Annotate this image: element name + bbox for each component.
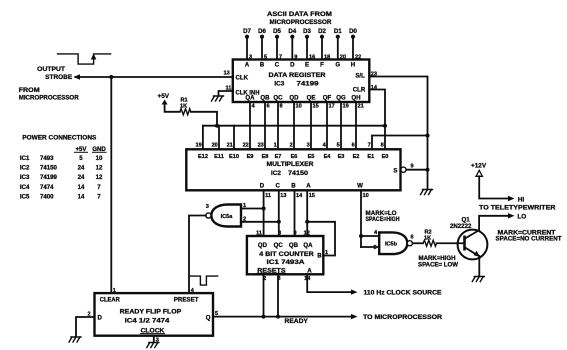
svg-text:12: 12 xyxy=(96,174,103,181)
svg-text:6: 6 xyxy=(352,143,355,149)
svg-text:12: 12 xyxy=(96,165,103,172)
svg-text:7474: 7474 xyxy=(40,184,54,191)
svg-text:15: 15 xyxy=(309,193,315,199)
svg-text:QF: QF xyxy=(323,95,332,102)
pin 23 label S/L xyxy=(371,72,377,78)
wire QG to E3 xyxy=(341,102,349,149)
svg-text:A: A xyxy=(306,183,311,190)
wire QH to E2 xyxy=(356,102,364,149)
svg-text:11: 11 xyxy=(265,193,271,199)
svg-text:7: 7 xyxy=(368,143,371,149)
svg-text:D: D xyxy=(260,183,265,190)
svg-text:IC1: IC1 xyxy=(20,155,30,162)
node TO TELETYPEWRITER label xyxy=(479,205,556,212)
svg-text:E5: E5 xyxy=(308,154,315,160)
wire IC5b input 4 xyxy=(361,230,379,236)
wire counter reset pin 2 to READY xyxy=(263,274,266,316)
svg-text:9: 9 xyxy=(411,164,414,170)
svg-text:QG: QG xyxy=(336,95,346,102)
junction R1/rail xyxy=(215,124,219,128)
svg-text:6: 6 xyxy=(411,235,414,241)
ground at D input xyxy=(69,337,81,342)
wire R2 to base xyxy=(437,242,465,244)
svg-text:E2: E2 xyxy=(353,154,360,160)
junction strobe / clear xyxy=(109,75,113,79)
node D5 xyxy=(273,28,282,61)
svg-text:TO MICROPROCESSOR: TO MICROPROCESSOR xyxy=(363,314,443,321)
wire counter reset pin 3 to READY xyxy=(277,274,280,316)
svg-text:19: 19 xyxy=(195,143,201,149)
svg-text:E10: E10 xyxy=(229,154,239,160)
svg-text:IC4 1/2 7474: IC4 1/2 7474 xyxy=(125,318,171,325)
node D4 xyxy=(288,28,297,61)
svg-text:19: 19 xyxy=(343,104,349,110)
svg-text:IC5b: IC5b xyxy=(385,242,398,248)
svg-text:20: 20 xyxy=(212,143,218,149)
wire rail to E10 xyxy=(233,126,235,150)
wire IC5a input 2 xyxy=(241,217,279,223)
svg-text:DATA REGISTER: DATA REGISTER xyxy=(269,72,326,79)
arrow to 110Hz clock source xyxy=(351,289,442,296)
arrow to microprocessor xyxy=(351,314,443,321)
svg-text:IC5: IC5 xyxy=(20,194,30,201)
wire QF to E4 xyxy=(327,102,335,149)
4 bit counter IC1 7493A xyxy=(247,236,323,274)
svg-text:MULTIPLEXER: MULTIPLEXER xyxy=(267,161,314,168)
wire R1 to pull-up rail xyxy=(191,112,217,126)
wire mux C to counter QC xyxy=(278,190,287,236)
svg-text:14: 14 xyxy=(78,194,85,201)
svg-text:CLR: CLR xyxy=(353,87,366,94)
svg-text:23: 23 xyxy=(258,143,264,149)
wire: +5V pull-up rail xyxy=(203,125,385,127)
svg-text:1: 1 xyxy=(113,288,116,294)
svg-text:2: 2 xyxy=(263,276,266,282)
transistor Q1 2N2222 xyxy=(450,216,487,259)
wire IC5b input 5 xyxy=(361,245,379,251)
svg-text:HI: HI xyxy=(518,196,525,203)
svg-text:22: 22 xyxy=(243,143,249,149)
svg-text:QA: QA xyxy=(245,95,255,102)
multiplexer IC2 74150 xyxy=(186,149,400,190)
svg-text:74199: 74199 xyxy=(40,174,58,181)
node MARK=LO SPACE=HIGH label xyxy=(366,210,400,223)
svg-text:CLK: CLK xyxy=(236,75,249,82)
svg-text:E7: E7 xyxy=(275,154,282,160)
svg-text:E: E xyxy=(305,62,309,69)
svg-text:2N2222: 2N2222 xyxy=(450,223,472,230)
resistor R1 1K xyxy=(180,98,191,115)
node FROM MICROPROCESSOR label xyxy=(19,87,79,102)
svg-text:S: S xyxy=(393,167,397,174)
svg-text:QD: QD xyxy=(258,242,268,249)
junction QC line / input2 xyxy=(277,220,281,224)
pin 4 label PRESET xyxy=(191,288,195,294)
wire: output strobe line to CLK xyxy=(74,74,233,79)
data register IC3 74199 xyxy=(233,60,369,103)
svg-text:E8: E8 xyxy=(262,154,269,160)
wire QB to E8 xyxy=(265,102,270,149)
junction READY / reset2 xyxy=(262,315,266,319)
wire QA to B input pin 1 xyxy=(307,222,335,256)
svg-text:C: C xyxy=(275,62,280,69)
svg-text:7493: 7493 xyxy=(40,155,54,162)
svg-text:D7: D7 xyxy=(243,28,251,35)
svg-text:110 Hz CLOCK SOURCE: 110 Hz CLOCK SOURCE xyxy=(364,290,442,297)
svg-text:74199: 74199 xyxy=(297,81,320,88)
svg-text:D1: D1 xyxy=(334,28,342,35)
svg-text:B: B xyxy=(260,62,265,69)
svg-text:STROBE: STROBE xyxy=(45,74,73,81)
svg-text:QD: QD xyxy=(289,95,299,102)
nand gate IC5b xyxy=(379,232,413,254)
svg-text:10: 10 xyxy=(96,155,103,162)
resistor R2 1K xyxy=(423,230,437,247)
svg-text:D: D xyxy=(98,315,103,322)
svg-text:OUTPUT: OUTPUT xyxy=(37,66,65,73)
svg-text:3: 3 xyxy=(307,143,310,149)
svg-text:14: 14 xyxy=(304,276,311,282)
svg-text:IC3: IC3 xyxy=(20,174,30,181)
node READY label xyxy=(285,318,308,325)
wire S/L down to ground xyxy=(369,77,427,190)
wire CLR to E0 xyxy=(369,90,385,150)
svg-text:QB: QB xyxy=(260,95,270,102)
svg-text:IC1 7493A: IC1 7493A xyxy=(267,259,306,266)
svg-text:IC3: IC3 xyxy=(274,81,284,88)
svg-text:1: 1 xyxy=(274,143,277,149)
svg-text:3: 3 xyxy=(277,276,280,282)
wire QE to E5 xyxy=(311,102,319,149)
svg-text:S/L: S/L xyxy=(355,73,365,80)
svg-text:IC4: IC4 xyxy=(20,184,30,191)
node D6 xyxy=(258,28,267,61)
wire rail to E12 xyxy=(202,126,204,150)
svg-text:17: 17 xyxy=(329,104,335,110)
svg-text:24: 24 xyxy=(78,174,85,181)
svg-text:D3: D3 xyxy=(303,28,311,35)
svg-text:FROM: FROM xyxy=(19,87,40,94)
svg-text:Q: Q xyxy=(206,315,211,322)
pin 13 label CLK xyxy=(224,71,230,77)
node MARK=CURRENT label xyxy=(498,230,556,237)
svg-text:D2: D2 xyxy=(318,28,326,35)
node D2 xyxy=(318,28,330,61)
junction rail/CLR-E0 xyxy=(383,124,387,128)
svg-text:TO TELETYPEWRITER: TO TELETYPEWRITER xyxy=(479,205,556,212)
svg-text:QA: QA xyxy=(303,242,313,249)
svg-text:W: W xyxy=(357,183,363,190)
ground at S/L net xyxy=(421,190,433,195)
wire D pin 2 to ground xyxy=(76,312,95,337)
wire mux W to IC5b xyxy=(361,190,369,247)
svg-text:READY FLIP FLOP: READY FLIP FLOP xyxy=(120,309,182,316)
svg-text:14: 14 xyxy=(296,193,303,199)
svg-text:13: 13 xyxy=(280,193,286,199)
svg-text:H: H xyxy=(351,62,355,69)
wire mux A to counter QA xyxy=(304,190,315,236)
wire clock pin 3 to ground xyxy=(154,336,159,344)
svg-text:READY: READY xyxy=(285,318,308,325)
wire: CLK INH to ground xyxy=(219,91,233,96)
wire rail to E11 xyxy=(218,126,220,150)
svg-text:IC5a: IC5a xyxy=(221,214,234,220)
strobe waveform xyxy=(58,54,111,65)
svg-text:D0: D0 xyxy=(349,28,357,35)
node OUTPUT STROBE label xyxy=(37,66,73,81)
svg-text:SPACE= LOW: SPACE= LOW xyxy=(418,262,458,269)
wire IC5a output to PRESET xyxy=(189,216,206,294)
svg-text:D4: D4 xyxy=(288,28,296,35)
svg-text:10: 10 xyxy=(296,104,302,110)
svg-text:74150: 74150 xyxy=(40,165,58,172)
svg-text:MICROPROCESSOR: MICROPROCESSOR xyxy=(19,95,79,102)
wire counter A input pin 14 to clock source xyxy=(304,274,352,292)
wire emitter to ground xyxy=(478,256,480,276)
svg-text:E11: E11 xyxy=(214,154,224,160)
svg-text:8: 8 xyxy=(280,104,283,110)
ready flip flop IC4 1/2 7474 xyxy=(95,293,214,336)
svg-text:QC: QC xyxy=(274,242,284,249)
ground at emitter xyxy=(472,277,484,282)
mux top pin numbers xyxy=(195,143,383,149)
svg-text:6: 6 xyxy=(267,104,270,110)
wire QA to E9 xyxy=(250,102,256,149)
nand gate IC5a xyxy=(206,204,241,227)
svg-text:POWER CONNECTIONS: POWER CONNECTIONS xyxy=(22,135,97,142)
svg-text:A: A xyxy=(245,62,250,69)
junction QD line / input1 xyxy=(262,207,266,211)
svg-text:E6: E6 xyxy=(291,154,298,160)
node D3 xyxy=(303,28,315,61)
node D7 xyxy=(243,28,252,61)
svg-text:21: 21 xyxy=(227,143,233,149)
svg-text:LO: LO xyxy=(517,214,526,221)
ground at clock xyxy=(147,343,159,348)
pin 11 label CLK INH xyxy=(226,86,232,92)
svg-text:IC2: IC2 xyxy=(20,165,30,172)
node LO label xyxy=(517,214,526,221)
svg-text:QC: QC xyxy=(273,95,283,102)
svg-text:74150: 74150 xyxy=(288,170,308,177)
junction QA line / B loop xyxy=(305,220,309,224)
wire IC5a input 1 xyxy=(241,203,264,209)
svg-text:1: 1 xyxy=(243,203,246,209)
svg-text:24: 24 xyxy=(78,165,85,172)
svg-text:D: D xyxy=(290,62,295,69)
svg-text:5: 5 xyxy=(337,143,340,149)
svg-text:2: 2 xyxy=(290,143,293,149)
svg-text:C: C xyxy=(275,183,280,190)
strobe S bubble pin 9 xyxy=(401,164,428,173)
svg-text:E3: E3 xyxy=(338,154,345,160)
svg-text:14: 14 xyxy=(78,184,85,191)
svg-text:5: 5 xyxy=(215,311,218,317)
svg-text:2: 2 xyxy=(243,217,246,223)
node: ASCII DATA FROM MICROPROCESSOR label xyxy=(267,11,332,26)
svg-text:7400: 7400 xyxy=(40,194,54,201)
pin 1 label CLEAR xyxy=(113,288,116,294)
svg-text:3: 3 xyxy=(206,204,209,210)
wire E1 link xyxy=(372,136,428,150)
svg-text:QH: QH xyxy=(351,95,360,102)
+5V supply xyxy=(158,93,180,112)
svg-text:MICROPROCESSOR: MICROPROCESSOR xyxy=(270,19,332,26)
wire strobe junction down to CLEAR pin 1 xyxy=(110,77,112,293)
svg-text:QE: QE xyxy=(307,95,316,102)
svg-text:+5V: +5V xyxy=(158,93,170,100)
wire Q pin 5 READY line xyxy=(213,311,353,317)
svg-text:D6: D6 xyxy=(258,28,266,35)
svg-text:1: 1 xyxy=(325,250,328,256)
wire IC5b output to R2 xyxy=(413,242,424,244)
+12V supply xyxy=(471,162,487,176)
preset pulse waveform xyxy=(189,276,218,285)
power connections table xyxy=(20,135,106,201)
svg-text:G: G xyxy=(335,62,340,69)
svg-text:5: 5 xyxy=(374,245,377,251)
svg-text:E9: E9 xyxy=(247,154,254,160)
wire collector to LO xyxy=(479,213,514,230)
svg-text:+12V: +12V xyxy=(471,162,487,169)
wire +12V to HI xyxy=(479,176,514,201)
svg-text:E12: E12 xyxy=(198,154,208,160)
pin 14 label CLR xyxy=(371,85,378,91)
svg-text:E1: E1 xyxy=(367,154,374,160)
svg-text:SPACE=NO CURRENT: SPACE=NO CURRENT xyxy=(496,236,562,243)
svg-text:2: 2 xyxy=(88,312,91,318)
wire QC to E7 xyxy=(278,102,283,149)
node MARK=HIGH SPACE=LOW label xyxy=(418,255,458,269)
svg-text:15: 15 xyxy=(313,104,319,110)
svg-text:B: B xyxy=(317,253,322,260)
wire mux B to counter QB xyxy=(293,190,303,236)
svg-text:B: B xyxy=(291,183,296,190)
junction READY / reset3 xyxy=(276,315,280,319)
wire mux D to counter QD xyxy=(256,190,271,236)
ground at CLK INH xyxy=(212,96,224,101)
node D1 xyxy=(334,28,346,61)
svg-text:8: 8 xyxy=(381,143,384,149)
svg-text:PRESET: PRESET xyxy=(174,297,199,304)
svg-text:IC2: IC2 xyxy=(271,170,281,177)
svg-text:E0: E0 xyxy=(382,154,389,160)
svg-text:D5: D5 xyxy=(273,28,281,35)
node HI label xyxy=(518,196,525,203)
junction S/L / strobe9 xyxy=(426,168,430,172)
node SPACE=NO CURRENT label xyxy=(496,236,562,243)
svg-text:A: A xyxy=(307,267,312,274)
svg-text:21: 21 xyxy=(358,104,364,110)
svg-text:QB: QB xyxy=(289,242,299,249)
svg-text:CLEAR: CLEAR xyxy=(100,297,121,304)
svg-text:4 BIT COUNTER: 4 BIT COUNTER xyxy=(259,251,314,258)
svg-text:13: 13 xyxy=(224,71,230,77)
junction S/L / E1 xyxy=(426,134,430,138)
svg-text:SPACE=HIGH: SPACE=HIGH xyxy=(366,216,400,223)
svg-text:10: 10 xyxy=(363,193,369,199)
node D0 xyxy=(349,28,361,61)
svg-text:E4: E4 xyxy=(324,154,332,160)
svg-text:ASCII DATA FROM: ASCII DATA FROM xyxy=(267,11,332,18)
svg-text:F: F xyxy=(320,62,324,69)
junction W / IC5b inputs xyxy=(359,234,363,238)
wire QD to E6 xyxy=(294,102,302,149)
